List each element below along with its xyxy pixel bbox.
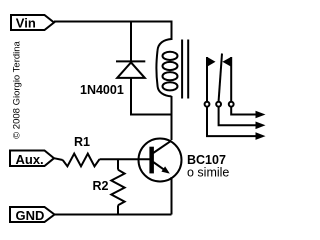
transistor emitter stroke [153,162,168,172]
contact terminal circle middle [216,102,221,107]
svg-text:GND: GND [16,208,45,223]
svg-text:o simile: o simile [187,166,229,180]
wire diode branch from top rail [130,22,132,62]
svg-text:R2: R2 [93,179,109,193]
relay coil K1 [156,39,171,96]
coil loop 1 [163,52,178,60]
relay contact fixed line left [206,57,208,101]
svg-text:R1: R1 [74,135,90,149]
relay contact fixed line right [230,57,232,101]
output wire 2 (from middle terminal) [219,107,257,126]
output wire 3 (from left terminal) [207,107,257,137]
wire R1 to base (node with R2) [100,158,151,160]
transistor Q1 BC107 circle [139,139,182,182]
relay core line 1 [181,40,183,99]
relay contact flag right (NO) [222,57,231,67]
svg-text:© 2008 Giorgio Terdina: © 2008 Giorgio Terdina [12,40,23,138]
wire Vin to coil top [54,22,172,41]
connector Aux [10,151,54,167]
transistor base bar [149,147,154,174]
transistor emitter arrow [161,166,169,173]
coil loop 2 [163,62,178,70]
resistor R1 [63,154,100,167]
connector Vin [11,15,54,30]
wire coil bottom to collector [171,96,173,140]
output arrow 3 [256,132,266,140]
connector GND [10,207,55,222]
diode D1 1N4001 [116,61,145,78]
transistor collector stroke [153,141,171,153]
svg-text:Aux.: Aux. [16,152,44,167]
contact terminal circle right [229,102,234,107]
svg-text:Vin: Vin [16,15,36,30]
coil loop 3 [163,72,178,80]
resistor R2 [111,170,124,206]
output arrow 1 [256,111,266,119]
relay contact moving arm [219,54,222,102]
output wire 1 (from right terminal) [231,107,256,115]
wire R2 bottom lead to GND rail [117,205,119,214]
wire emitter to GND rail [171,177,173,215]
wire diode anode to collector line [131,78,172,115]
coil loop 4 [163,82,178,90]
contact terminal circle left [205,102,210,107]
relay contact flag left (NC) [207,57,216,67]
relay core line 2 [187,40,189,99]
wire GND rail [55,214,172,216]
output arrow 2 [256,122,266,130]
svg-text:1N4001: 1N4001 [80,83,124,97]
wire Aux to R1 [54,158,63,160]
wire R2 top lead [117,159,119,170]
